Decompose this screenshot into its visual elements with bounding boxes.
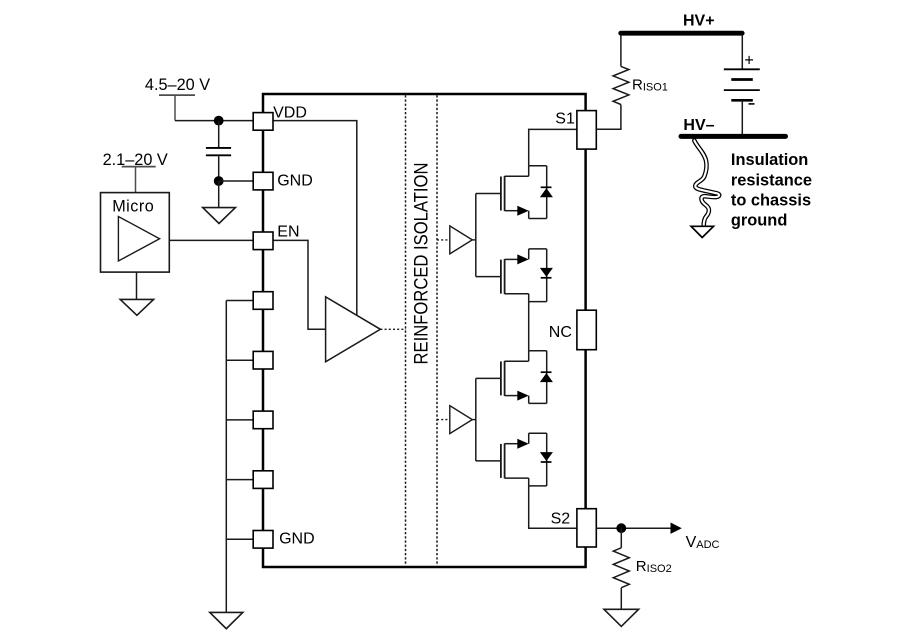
node HV- bar [681,134,786,139]
svg-text:4.5–20 V: 4.5–20 V [145,76,210,94]
wire Micro to ground [136,272,138,299]
dotted signal to upper gate buffer [437,239,450,241]
wire HV+ to battery [741,35,743,69]
svg-text:HV+: HV+ [683,13,715,30]
svg-text:S1: S1 [555,110,575,127]
IC U1 outline [263,94,586,567]
pin S1 [577,111,596,150]
svg-text:S2: S2 [551,510,571,527]
pin 5 [253,351,273,369]
wire supply rail to VDD [174,95,176,121]
svg-text:HV–: HV– [683,117,714,134]
svg-text:Micro: Micro [112,198,154,216]
transistor Q4 [476,433,547,486]
junction dot at GND [214,176,224,186]
isolation barrier dashed line right [436,95,438,566]
body diode D2 [540,249,553,302]
junction dot S2 node [616,523,626,533]
wire VDD internal to driver [273,121,357,316]
wire junction down to ground [218,181,220,208]
battery BT1 [724,52,760,104]
ground symbol below Micro [120,299,153,315]
svg-text:+: + [744,52,753,70]
pin GND 2 [253,531,273,549]
pin GND [253,172,273,190]
wire S2 to VADC node [596,527,671,529]
wire EN internal to driver [273,240,326,329]
pin 6 [253,411,273,429]
wire junction to GND pin [219,180,254,182]
pin EN [253,232,273,250]
svg-text:GND: GND [277,172,313,189]
squiggle insulation resistance to chassis [694,141,719,227]
op-amp driver triangle [326,297,381,362]
transistor Q2 [476,249,547,302]
gate buffer U4 lower [450,406,473,434]
isolation barrier dashed line left [405,95,407,566]
transistor Q1 [476,166,547,219]
wire battery to HV- [741,100,743,134]
capacitor C1 [218,121,220,147]
wire rail to Micro [135,167,137,193]
wire lower gate bus [475,378,477,461]
ground chassis [691,226,713,237]
svg-text:EN: EN [277,224,299,241]
wire Q4 drain to S2 [529,486,577,528]
resistor RISO1 [613,66,629,104]
arrow VADC [671,523,682,534]
pin NC [577,310,596,350]
svg-text:resistance: resistance [731,171,812,189]
wire buffer to lower gate bus [472,419,476,421]
pin VDD [253,113,273,131]
dotted signal to lower gate buffer [437,419,450,421]
wire S1 to RISO1 [596,105,621,130]
wire Q2 drain to Q3 drain [528,302,530,351]
svg-text:VDD: VDD [273,104,307,121]
wire node to RISO2 [620,528,622,548]
svg-text:Insulation: Insulation [731,151,808,169]
body diode D1 [540,166,553,219]
svg-text:REINFORCED ISOLATION: REINFORCED ISOLATION [410,163,432,365]
wire buffer to upper gate bus [472,239,476,241]
wire upper gate bus [475,194,477,277]
ground symbol bottom left [210,612,243,628]
ground symbol below capacitor [203,208,236,224]
pin 4 [253,292,273,310]
svg-text:GND: GND [279,531,315,548]
body diode D3 [540,351,553,404]
wire RISO1 to HV+ [620,35,622,67]
body diode D4 [540,433,553,486]
micro buffer triangle [118,217,159,262]
wire RISO2 to ground [620,588,622,610]
wire S1 to Q1 drain [529,129,577,165]
junction dot at VDD [214,116,224,126]
svg-text:NC: NC [549,324,572,341]
pin S2 [577,509,596,547]
gate buffer U3 upper [450,226,473,254]
dotted signal across barrier [380,328,406,330]
transistor Q3 [476,351,547,404]
wire left pin bus [225,301,227,613]
node HV+ bar [621,31,743,36]
pin 7 [253,471,273,489]
resistor RISO2 [613,548,629,588]
micro U2 box [101,193,170,273]
svg-text:to chassis: to chassis [731,192,811,210]
svg-text:ground: ground [731,212,787,230]
wire Micro to EN pin [169,239,253,241]
ground symbol below RISO2 [604,609,639,626]
